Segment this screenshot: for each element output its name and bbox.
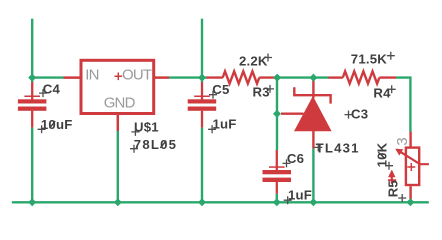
R5 value slashed zero (378, 152, 385, 158)
capacitor C4 plates (18, 99, 47, 103)
C4 value slashed zero (50, 121, 56, 128)
svg-text:R5: R5 (385, 180, 400, 197)
junction node C6/ref (273, 110, 281, 118)
TL431 triangle (294, 96, 332, 131)
voltage regulator U$1 78L05 body (81, 60, 154, 113)
svg-text:78L05: 78L05 (134, 137, 177, 152)
junction rail C5 (198, 198, 206, 206)
resistor R3 left lead (207, 76, 223, 78)
wire C5 top vertical (201, 19, 203, 82)
junction rail R5 (406, 198, 414, 206)
capacitor C4 tick (24, 96, 40, 98)
trimmer R5 wiper arrowhead (395, 149, 403, 156)
svg-text:TL431: TL431 (316, 141, 360, 156)
wire U1 GND to rail (117, 131, 119, 203)
U1 name origin cross (131, 128, 139, 136)
trimmer R5 bottom pin (409, 186, 411, 199)
capacitor C5 plates (188, 99, 217, 103)
R5 name origin cross (398, 194, 406, 202)
svg-text:71.5K: 71.5K (351, 51, 387, 66)
svg-text:1uF: 1uF (213, 117, 237, 132)
R5 wiper up-arrow (391, 172, 393, 184)
svg-text:10uF: 10uF (41, 117, 73, 132)
R3 name origin cross (266, 85, 274, 93)
trimmer R5 wiper bent lead (397, 149, 429, 164)
TL431 cathode line (312, 76, 314, 98)
capacitor C4 top pin (31, 82, 33, 100)
junction node R3/C6 (273, 74, 281, 82)
C5 name origin cross (209, 91, 217, 99)
capacitor C5 tick (194, 96, 210, 98)
capacitor C5 bottom pin (201, 111, 203, 128)
junction node OUT/C5 (198, 74, 206, 82)
capacitor C4 bottom pin (31, 111, 33, 128)
wire C4 bottom to rail (31, 128, 33, 203)
C4 value origin cross (38, 125, 46, 133)
junction rail C4 (28, 198, 36, 206)
wire R4 right corner down to R5 (396, 78, 410, 132)
wire R3 to R4 segment (275, 76, 329, 78)
R4 value origin cross (387, 52, 395, 60)
wire node to C6 vertical (276, 78, 278, 150)
trimmer R5 body (406, 148, 419, 185)
C5 value origin cross (208, 125, 216, 133)
C6 name origin cross (283, 159, 291, 167)
svg-text:C4: C4 (43, 81, 61, 96)
wire OUT pin to C5 node (169, 76, 207, 78)
wire C6 bottom to rail (276, 194, 278, 203)
capacitor C6 plates (263, 170, 292, 174)
svg-text:R3: R3 (253, 84, 270, 99)
svg-text:IN: IN (85, 67, 98, 84)
junction rail U1 GND (114, 198, 122, 206)
svg-text:GND: GND (104, 95, 136, 112)
TL431 name origin cross (314, 143, 322, 151)
U1 pin OUT (154, 76, 169, 79)
U1 pin GND (117, 113, 120, 131)
TL431 cathode bar with bent ends (294, 87, 330, 103)
svg-text:2.2K: 2.2K (239, 54, 268, 69)
TL431 anode pin (312, 130, 314, 149)
capacitor C6 tick (269, 166, 285, 168)
resistor R4 left lead (328, 76, 342, 78)
svg-text:R4: R4 (373, 85, 391, 100)
junction rail C6 (273, 198, 281, 206)
resistor R4 zigzag body (343, 71, 380, 83)
capacitor C6 top pin (276, 150, 278, 170)
R5 origin cross (red) (407, 163, 415, 171)
C6 value origin cross (284, 196, 292, 204)
svg-text:OUT: OUT (122, 67, 152, 84)
U1 value origin cross (130, 145, 138, 153)
wire ground rail (12, 201, 429, 203)
wire top-left vertical (31, 19, 33, 82)
resistor R4 right lead (379, 76, 396, 78)
wire C4 node to IN pin (31, 76, 64, 78)
capacitor C6 bottom pin (276, 182, 278, 194)
U1 value slashed zero (160, 141, 166, 148)
junction node C4/IN (28, 74, 36, 82)
resistor R3 zigzag body (223, 71, 260, 83)
junction rail TL431 anode (309, 198, 317, 206)
svg-text:3: 3 (394, 138, 411, 146)
wire TL431 anode to rail (312, 149, 314, 203)
svg-text:C3: C3 (351, 107, 368, 122)
C4 name origin cross (39, 89, 47, 97)
R4 name origin cross (388, 85, 396, 93)
C3 name origin cross (345, 111, 353, 119)
junction node TL431 cathode (309, 74, 317, 82)
capacitor C5 top pin (201, 82, 203, 100)
trimmer R5 top pin (409, 132, 411, 148)
R5 value origin cross (385, 162, 393, 170)
R3 value origin cross (264, 54, 272, 62)
U1 origin cross (red) (115, 73, 123, 81)
wire C5 bottom to rail (201, 128, 203, 203)
TL431 ref pin (281, 112, 304, 114)
resistor R3 right lead (259, 76, 275, 78)
U1 pin IN (64, 76, 83, 79)
